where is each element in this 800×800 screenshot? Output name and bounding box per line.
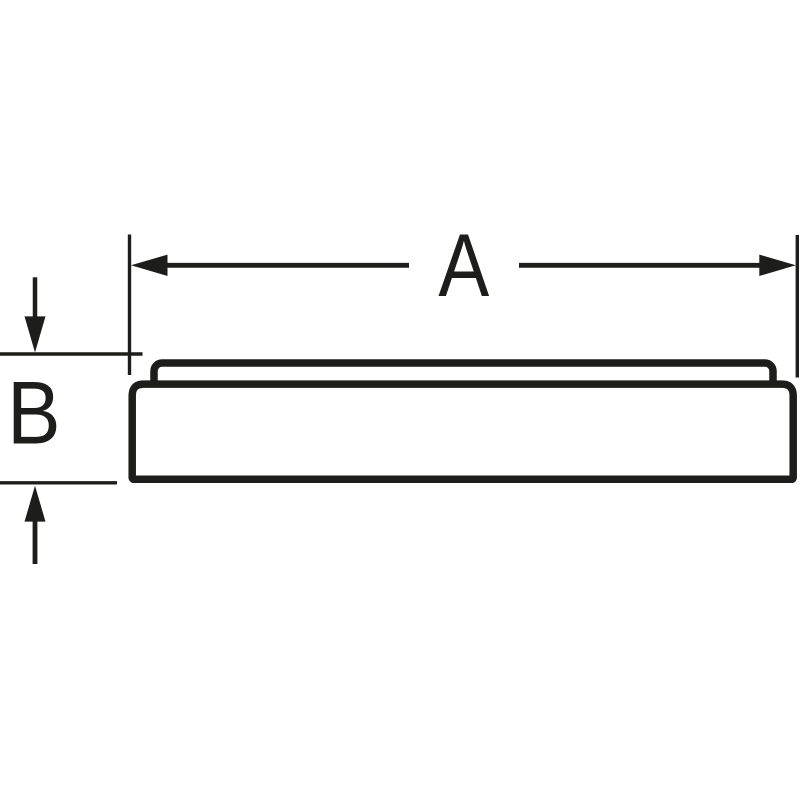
- arrowhead B up: [25, 486, 46, 522]
- dimension B bottom line: [0, 481, 117, 484]
- extension line right (dimension A): [796, 235, 799, 378]
- dimension line A left shaft: [165, 263, 409, 268]
- dimension B top line: [0, 352, 143, 355]
- extension line left (dimension A): [128, 235, 131, 376]
- arrowhead A left: [131, 255, 168, 276]
- arrowhead B down: [25, 316, 46, 352]
- arrow B up shaft: [33, 521, 38, 564]
- arrow B down shaft: [33, 277, 38, 318]
- battery body: [132, 384, 793, 479]
- arrowhead A right: [759, 255, 796, 276]
- battery top cap (lid): [154, 363, 773, 403]
- dimension line A right shaft: [519, 263, 761, 268]
- svg-text:A: A: [438, 215, 490, 315]
- svg-text:B: B: [7, 363, 60, 463]
